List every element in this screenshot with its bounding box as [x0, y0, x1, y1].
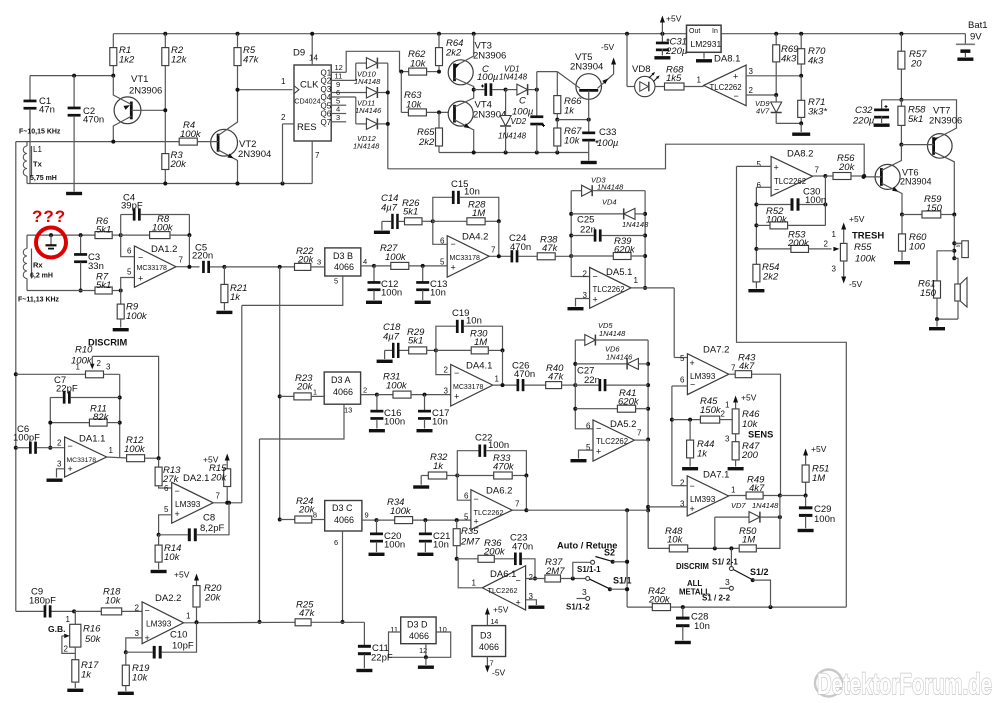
svg-text:100k: 100k [126, 311, 148, 322]
capacitor C19 [436, 308, 503, 350]
wire DA7.2 pin6 column [670, 386, 688, 486]
svg-text:7: 7 [216, 492, 221, 501]
svg-text:1N4148: 1N4148 [353, 142, 380, 151]
LED VD8 [627, 64, 665, 97]
resistor R4 [179, 120, 202, 145]
svg-text:620k: 620k [614, 245, 636, 256]
resistor R54 [748, 262, 779, 292]
transistor VT5 [557, 52, 613, 120]
svg-text:5: 5 [680, 354, 685, 363]
svg-text:DA5.2: DA5.2 [610, 419, 636, 430]
svg-text:200: 200 [741, 450, 759, 461]
power -5V arrow VT5 [601, 42, 616, 74]
resistor R60 [894, 215, 927, 265]
svg-text:D3 C: D3 C [332, 503, 353, 513]
resistor R64 [436, 34, 464, 74]
svg-text:10n: 10n [464, 187, 480, 198]
svg-text:20k: 20k [170, 159, 188, 170]
svg-text:TRESH: TRESH [852, 231, 884, 242]
op-amp DA4.1 MC33178 [444, 361, 500, 407]
wire DA5.1 output down [631, 288, 687, 358]
svg-text:TLC2262: TLC2262 [488, 586, 518, 595]
svg-text:1M: 1M [742, 535, 755, 546]
wire D3B output row [361, 264, 376, 268]
wire D9 pin14 to rail [310, 32, 314, 65]
power +5V arrow and C31 [660, 14, 682, 34]
svg-text:47k: 47k [542, 243, 559, 254]
analog switch D3 C 4066 [313, 501, 369, 532]
svg-text:10pF: 10pF [172, 641, 194, 652]
resistor R25 [295, 600, 342, 626]
svg-text:20k: 20k [298, 505, 316, 516]
wire sample bus [278, 267, 282, 522]
wire DA7.1 pin2 [672, 485, 687, 487]
wire oscillator bottom rail [27, 182, 312, 186]
label DISCRIM [88, 338, 128, 348]
potentiometer R46 SENS [721, 393, 774, 444]
svg-text:LM393: LM393 [146, 619, 172, 629]
svg-text:470n: 470n [510, 242, 531, 253]
inductor L2 Rx coil [23, 235, 53, 290]
svg-text:LM393: LM393 [690, 371, 716, 381]
op-amp DA6.1 TLC2262 (mirrored) [472, 566, 534, 610]
svg-text:100k: 100k [855, 254, 877, 265]
op-amp DA1.1 MC33178 [57, 434, 113, 478]
resistor R51 [802, 444, 829, 496]
transistor VT6 [862, 145, 932, 215]
svg-text:+5V: +5V [666, 14, 682, 24]
capacitor C9 [16, 587, 76, 618]
svg-text:Bat1: Bat1 [968, 20, 988, 31]
svg-text:2N3904: 2N3904 [570, 62, 603, 73]
resistor R42 [627, 586, 683, 611]
svg-text:R16: R16 [83, 624, 101, 635]
svg-text:3: 3 [336, 113, 340, 122]
wire Q1 to R62 [331, 51, 399, 72]
svg-text:+5V: +5V [741, 393, 757, 403]
resistor R61 [918, 251, 954, 319]
svg-text:L1: L1 [33, 145, 42, 154]
svg-text:2: 2 [444, 366, 449, 375]
wire DA6.2 output long [512, 476, 648, 513]
svg-text:1N4148: 1N4148 [599, 329, 626, 338]
svg-text:1N4146: 1N4146 [355, 106, 382, 115]
svg-text:R55: R55 [854, 242, 872, 253]
resistor R36 [457, 538, 514, 562]
svg-text:DA6.2: DA6.2 [486, 486, 512, 497]
svg-text:1: 1 [697, 76, 702, 85]
svg-text:100: 100 [909, 242, 926, 253]
svg-text:3: 3 [57, 460, 62, 469]
svg-text:3: 3 [106, 363, 111, 372]
wire Rx bottom net [27, 290, 95, 292]
svg-text:8,2pF: 8,2pF [200, 523, 224, 534]
wire TX line [16, 140, 179, 144]
capacitor C11 [343, 622, 393, 672]
svg-text:470n: 470n [512, 542, 533, 553]
svg-text:S1/2: S1/2 [750, 567, 769, 577]
wire Q2 to VD10 [331, 63, 366, 80]
svg-text:S1/ 2-1: S1/ 2-1 [712, 558, 738, 567]
resistor R7 [95, 272, 123, 295]
svg-text:−: − [454, 368, 459, 378]
svg-text:+: + [690, 504, 695, 514]
svg-text:2N3906: 2N3906 [473, 51, 506, 62]
capacitor C27 [575, 366, 648, 392]
svg-text:D3 A: D3 A [331, 375, 351, 385]
wire DA8.1 pin2 net [746, 93, 778, 97]
resistor R19 [118, 652, 150, 695]
svg-text:???: ??? [32, 207, 66, 226]
svg-text:D3 B: D3 B [333, 251, 353, 261]
svg-text:RES: RES [297, 122, 317, 133]
wire DA6.2 pin6 [457, 476, 471, 501]
svg-text:2: 2 [583, 270, 588, 279]
resistor R28 [433, 200, 501, 225]
power +5V arrow D3 [485, 605, 509, 626]
capacitor C30 [756, 176, 827, 211]
svg-text:1N4148: 1N4148 [499, 73, 528, 82]
svg-text:5k1: 5k1 [403, 207, 418, 218]
svg-text:100n: 100n [384, 417, 405, 428]
svg-text:C8: C8 [203, 513, 215, 524]
svg-text:100µ: 100µ [597, 138, 619, 149]
svg-text:F~10,15 KHz: F~10,15 KHz [19, 129, 61, 136]
svg-text:−: − [451, 239, 456, 249]
resistor R27 [374, 243, 447, 269]
svg-text:1M: 1M [472, 208, 485, 219]
resistor R57 [898, 34, 927, 100]
resistor R23 [280, 373, 325, 400]
svg-text:+: + [474, 517, 479, 527]
svg-text:2: 2 [57, 439, 62, 448]
svg-text:150: 150 [926, 203, 943, 214]
svg-text:G.B.: G.B. [48, 624, 65, 634]
wire R66/R67 node to VT5 base [557, 118, 590, 122]
resistor R65 [417, 112, 443, 152]
resistor R17 [67, 647, 99, 692]
resistor R58 [898, 100, 926, 145]
svg-text:50k: 50k [85, 634, 102, 645]
wire Q4 to VD12 [331, 88, 366, 124]
wire Rx top net [27, 233, 95, 237]
svg-text:1: 1 [725, 401, 730, 410]
wire detector output node [780, 494, 808, 498]
svg-text:5: 5 [127, 268, 132, 277]
svg-text:2: 2 [281, 113, 286, 122]
power +5V arrow R20 [174, 570, 199, 586]
switch S2 [573, 548, 629, 579]
resistor R52 [756, 205, 825, 229]
svg-text:82k: 82k [93, 412, 110, 423]
svg-text:200k: 200k [648, 595, 671, 606]
svg-text:3: 3 [135, 629, 140, 638]
wire VD1 node up to VT5 collector [537, 72, 558, 90]
diode VD1 [499, 65, 537, 96]
wire D9 RES to ground rail [283, 124, 295, 184]
svg-text:100n: 100n [814, 514, 835, 525]
svg-text:1N4146: 1N4146 [606, 353, 633, 362]
svg-text:+: + [138, 274, 143, 284]
transistor VT4 [448, 90, 506, 153]
op-amp DA7.2 LM393 [680, 345, 736, 395]
svg-text:22pF: 22pF [371, 653, 393, 664]
svg-text:4: 4 [363, 257, 367, 266]
svg-text:MC33178: MC33178 [450, 255, 480, 262]
wire VD ladder2 right column [646, 340, 650, 442]
wire Q7 stub [331, 113, 346, 122]
svg-text:2: 2 [97, 359, 102, 368]
svg-text:11: 11 [390, 625, 398, 634]
wire S-junction vertical [625, 510, 629, 607]
resistor R33 [457, 453, 528, 479]
resistor R45 [672, 396, 733, 423]
resistor R43 [729, 353, 756, 378]
resistor R11 [50, 404, 119, 427]
svg-text:20k: 20k [297, 255, 315, 266]
wire left reference rail [14, 142, 18, 612]
wire Q6 stub [331, 105, 346, 114]
wire DA7.1 pin3 [648, 506, 687, 508]
svg-text:TLC2262: TLC2262 [774, 177, 806, 186]
resistor R71 [798, 76, 828, 124]
svg-text:DA2.2: DA2.2 [155, 593, 181, 604]
ground oscillator [66, 184, 82, 196]
resistor R12 [124, 435, 161, 462]
svg-text:100n: 100n [488, 440, 509, 451]
ground D3D pin12 [418, 657, 434, 669]
capacitor C10 [126, 622, 197, 658]
op-amp DA1.2 MC33178 [127, 244, 183, 287]
wire DA2.2 control bus [258, 439, 262, 624]
svg-text:47n: 47n [39, 105, 55, 116]
svg-text:200k: 200k [483, 547, 506, 558]
svg-text:220µ: 220µ [665, 46, 688, 57]
resistor R2 [162, 34, 188, 111]
wire DA5.2 output down [634, 440, 650, 549]
svg-text:2k2: 2k2 [762, 272, 779, 283]
svg-text:−: − [690, 380, 695, 390]
switch S1/1 [577, 565, 632, 591]
wire DA8.1 pin3 net [746, 74, 803, 78]
wire LED supply [626, 34, 628, 87]
capacitor C5 [192, 243, 226, 274]
svg-text:2: 2 [529, 573, 534, 582]
wire VD7 left column [714, 517, 716, 548]
svg-text:3k3*: 3k3* [808, 107, 827, 118]
resistor R69 [773, 34, 799, 95]
svg-text:+5V: +5V [493, 605, 509, 615]
svg-text:2: 2 [64, 645, 69, 654]
wire DA6.1 pin2 row [526, 578, 545, 580]
op-amp DA6.2 TLC2262 [464, 486, 520, 530]
svg-text:100k: 100k [386, 381, 408, 392]
wire D3A control pin13 [260, 404, 353, 439]
svg-text:10k: 10k [564, 136, 581, 147]
wire D9 pin7 to ground rail [312, 141, 320, 184]
svg-text:3: 3 [317, 258, 321, 267]
svg-text:DA1.1: DA1.1 [79, 434, 105, 445]
svg-text:4k7: 4k7 [749, 483, 765, 494]
svg-text:+5V: +5V [811, 444, 827, 454]
svg-text:10n: 10n [432, 417, 448, 428]
svg-text:100k: 100k [180, 129, 202, 140]
wire D3C control pin6 [334, 531, 345, 624]
svg-text:C32: C32 [855, 105, 873, 116]
transistor VT1 [113, 74, 165, 142]
svg-text:1N4148: 1N4148 [622, 220, 649, 229]
resistor R24 [280, 496, 325, 523]
wire R43 output down [752, 374, 781, 495]
svg-text:−: − [68, 441, 73, 451]
resistor R35 [453, 520, 480, 561]
svg-text:R10: R10 [75, 345, 93, 356]
resistor R49 [729, 475, 782, 500]
svg-text:14: 14 [309, 54, 318, 63]
svg-text:−: − [690, 481, 695, 491]
potentiometer R16 G.B. [48, 611, 102, 653]
resistor R41 [575, 388, 648, 412]
svg-text:DA8.2: DA8.2 [787, 149, 813, 160]
wire VD ladder2 left column [573, 340, 593, 429]
svg-text:20k: 20k [296, 382, 314, 393]
svg-text:VT1: VT1 [131, 74, 148, 85]
resistor R40 [546, 363, 578, 389]
svg-text:10k: 10k [132, 673, 149, 684]
svg-text:DISCRIM: DISCRIM [676, 562, 709, 571]
resistor R6 [95, 216, 123, 239]
capacitor C17 [417, 395, 450, 433]
analog switch D3 B 4066 [325, 248, 367, 276]
wire oscillator top node [30, 74, 115, 78]
wire CLK net [236, 88, 293, 92]
svg-text:+: + [454, 392, 459, 402]
svg-text:VD4: VD4 [602, 198, 617, 207]
wire D3C output row [362, 518, 379, 522]
wire Q3 to VD11 [331, 80, 366, 93]
svg-text:−: − [138, 253, 143, 263]
ground DA6.1 pin3 [526, 600, 545, 609]
wire DA1.2 pin6 jog [121, 235, 135, 257]
diode VD2 [498, 88, 527, 153]
capacitor C26 [512, 361, 546, 392]
op-amp DA5.1 TLC2262 [583, 267, 639, 308]
svg-text:1M: 1M [812, 473, 825, 484]
svg-text:1: 1 [495, 375, 500, 384]
node mystery ground [46, 235, 57, 249]
svg-text:2: 2 [363, 386, 367, 395]
svg-text:5: 5 [464, 513, 469, 522]
svg-text:Rx: Rx [33, 261, 43, 270]
svg-text:10: 10 [439, 625, 447, 634]
svg-text:10n: 10n [694, 621, 710, 632]
svg-text:2N3906: 2N3906 [929, 116, 962, 127]
capacitor C13 [415, 266, 448, 304]
svg-text:100pF: 100pF [13, 433, 40, 444]
svg-text:2: 2 [135, 604, 140, 613]
svg-text:1: 1 [634, 276, 639, 285]
transistor VT3 [427, 34, 507, 90]
svg-text:10n: 10n [430, 288, 446, 299]
capacitor C16 [369, 395, 405, 433]
svg-text:5k1: 5k1 [96, 280, 111, 291]
svg-text:Tx: Tx [33, 160, 43, 169]
ground R32 source [413, 476, 429, 489]
svg-text:4k7: 4k7 [739, 361, 755, 372]
svg-text:2N3904: 2N3904 [900, 177, 932, 187]
resistor R67 [554, 118, 582, 153]
svg-text:47k: 47k [299, 608, 316, 619]
wire R62 to R63 branch [400, 72, 402, 113]
svg-text:TLC2262: TLC2262 [596, 437, 628, 446]
svg-text:100k: 100k [71, 356, 93, 367]
switch S1/2 position 3 [702, 558, 738, 603]
svg-text:LM2931: LM2931 [691, 39, 722, 49]
transistor VT7 [899, 100, 962, 215]
transistor VT2 [197, 90, 271, 184]
svg-text:+: + [451, 263, 456, 273]
svg-text:7: 7 [491, 246, 496, 255]
svg-text:4066: 4066 [333, 387, 353, 397]
svg-text:10k: 10k [164, 552, 181, 563]
svg-text:3: 3 [749, 67, 754, 76]
svg-text:C33: C33 [599, 127, 616, 138]
svg-text:-5V: -5V [849, 279, 863, 289]
svg-text:1: 1 [832, 230, 837, 239]
svg-text:100n: 100n [384, 540, 405, 551]
watermark DetektorForum.de [815, 668, 992, 701]
svg-text:7: 7 [315, 151, 320, 160]
wire DA2.2 output row [184, 620, 296, 624]
svg-text:DetektorForum.de: DetektorForum.de [817, 668, 992, 701]
wire DA2.2 pin3 [124, 638, 142, 654]
svg-text:6: 6 [757, 181, 762, 190]
svg-text:C: C [519, 96, 526, 107]
capacitor C2 [68, 76, 105, 184]
svg-text:2N3904: 2N3904 [238, 149, 271, 160]
wire DA2.1 pin5 [157, 515, 172, 537]
svg-text:470n: 470n [514, 369, 535, 380]
svg-text:47k: 47k [243, 55, 260, 66]
svg-text:+: + [774, 163, 779, 173]
svg-text:6: 6 [127, 247, 132, 256]
svg-text:−: − [175, 486, 180, 496]
resistor R21 [216, 267, 247, 314]
svg-text:In: In [712, 28, 718, 35]
svg-text:100µ: 100µ [512, 107, 534, 118]
diode VD4 [571, 198, 649, 230]
wire DA1.1 output [107, 457, 127, 458]
svg-text:200k: 200k [787, 238, 810, 249]
label Auto / Retune [557, 541, 617, 551]
svg-text:1: 1 [76, 363, 81, 372]
svg-text:100µ: 100µ [477, 72, 499, 83]
svg-text:10n: 10n [433, 540, 449, 551]
svg-text:9V: 9V [970, 32, 982, 43]
svg-text:22pF: 22pF [56, 384, 78, 395]
capacitor C18 [383, 322, 409, 358]
svg-text:2k2: 2k2 [418, 137, 435, 148]
svg-text:10k: 10k [742, 419, 759, 430]
svg-text:VD8: VD8 [632, 64, 650, 75]
svg-text:150: 150 [920, 288, 937, 299]
wire DA2.1 output [213, 501, 242, 505]
wire diode cathode bus [386, 63, 390, 169]
capacitor C filter 100u [512, 88, 545, 153]
svg-text:1: 1 [313, 388, 317, 397]
wire D3D bypass loop [389, 632, 451, 659]
resistor R29 [407, 327, 438, 354]
